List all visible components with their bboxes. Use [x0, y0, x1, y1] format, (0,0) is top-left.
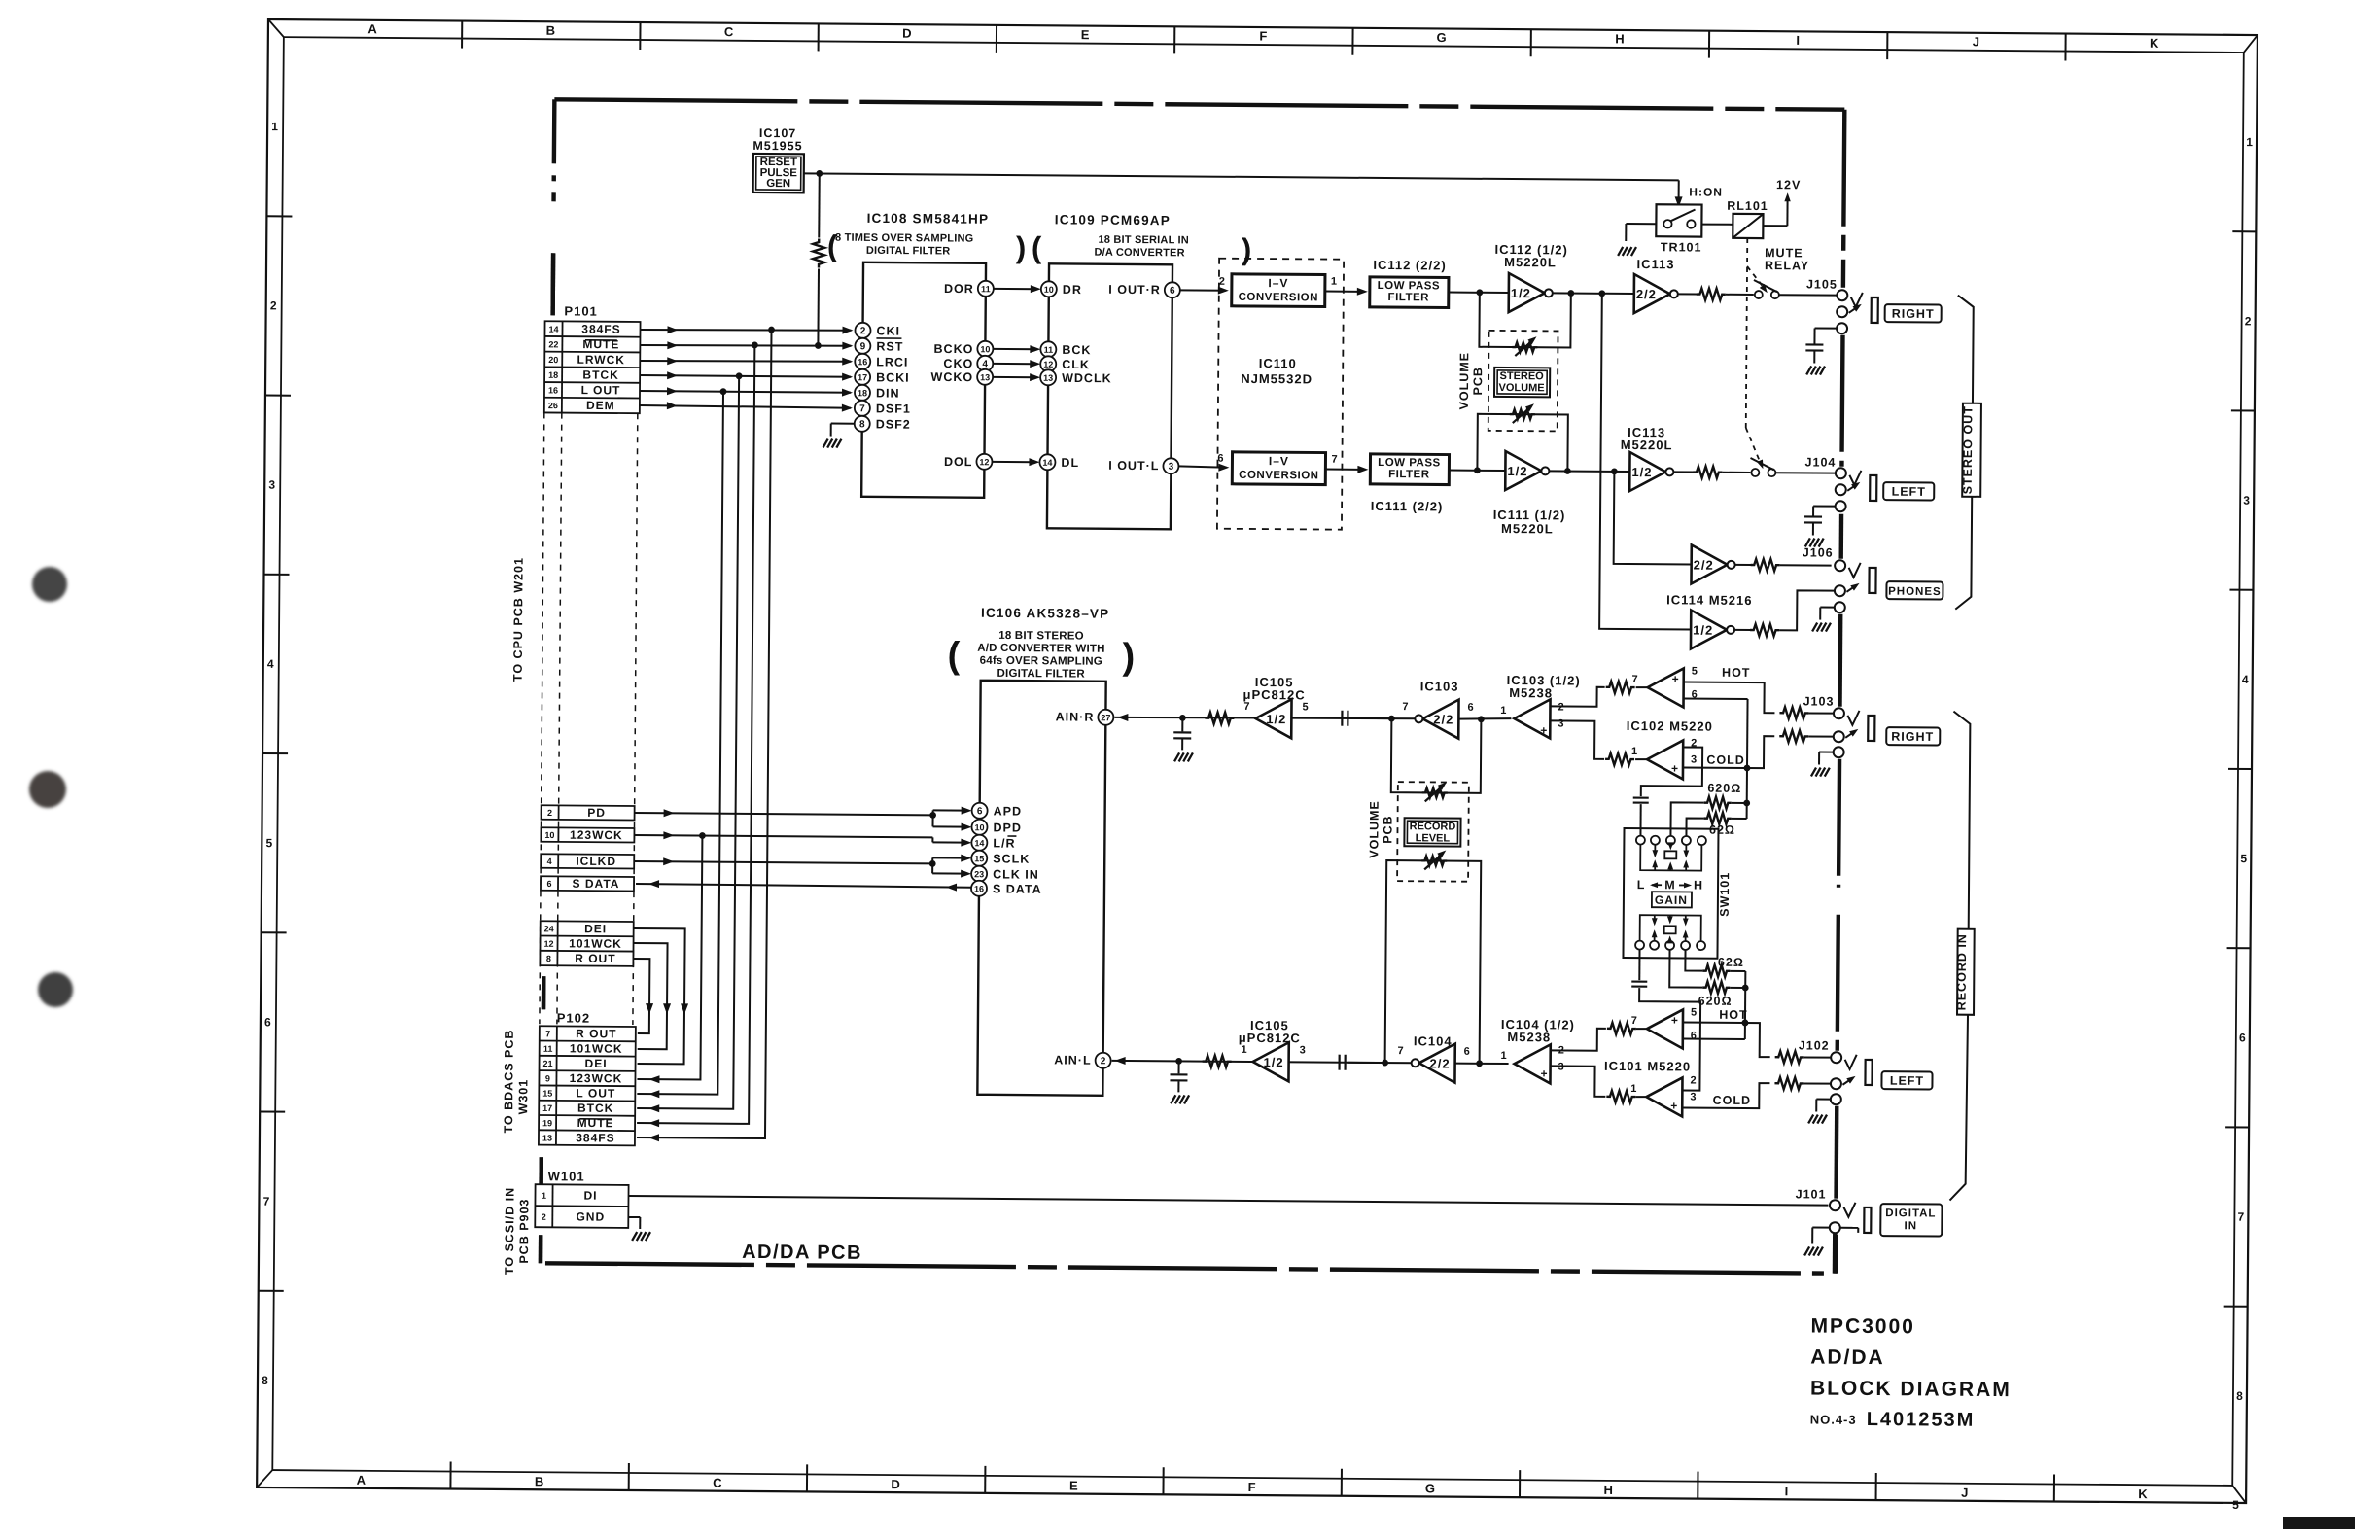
svg-text:RIGHT: RIGHT	[1891, 730, 1934, 744]
sheet number 5	[2232, 1498, 2240, 1512]
capacitor at J104 sleeve	[1804, 506, 1835, 535]
transistor TR101 switch box	[1626, 204, 1702, 255]
wire LPF to IC111	[1449, 467, 1505, 473]
svg-text:H: H	[1615, 31, 1626, 46]
wire GND to ground	[628, 1217, 650, 1241]
filter low pass filter right	[1370, 277, 1449, 308]
svg-text:IC112 (2/2): IC112 (2/2)	[1373, 258, 1446, 273]
svg-text:6: 6	[1464, 1046, 1471, 1058]
wire IC114 2/2 out	[1735, 564, 1752, 566]
svg-text:12: 12	[1043, 360, 1053, 369]
wire TR101 to RL101	[1701, 224, 1732, 226]
svg-text:620Ω: 620Ω	[1707, 782, 1741, 795]
wire to phones ring	[1779, 590, 1834, 630]
wire 620 lower to junction	[1730, 987, 1745, 989]
wire IC103 to M5238	[1458, 718, 1511, 719]
svg-text:H: H	[1694, 879, 1703, 892]
svg-text:RL101: RL101	[1727, 199, 1768, 213]
relay RL101 coil	[1727, 199, 1768, 238]
svg-text:5: 5	[2240, 852, 2248, 865]
svg-text:11: 11	[543, 1044, 553, 1054]
op-amp U IC103 half 2/2	[1402, 699, 1475, 739]
label IC106 AK5328-VP	[981, 606, 1109, 621]
svg-text:IC110: IC110	[1259, 356, 1297, 370]
svg-text:DIGITAL FILTER: DIGITAL FILTER	[866, 245, 951, 258]
record level feedback resistor right	[1391, 716, 1485, 802]
label VOLUME PCB	[1457, 352, 1485, 410]
svg-text:E: E	[1081, 27, 1091, 42]
svg-text:17: 17	[542, 1103, 552, 1113]
resistor J102 tip	[1775, 1051, 1804, 1063]
svg-text:DEI: DEI	[585, 1057, 608, 1070]
wire IC111 to IC113 lower	[1549, 468, 1629, 474]
connector J103 jack	[1834, 708, 1875, 757]
svg-text:CKI: CKI	[876, 324, 900, 337]
svg-text:7: 7	[2237, 1210, 2245, 1224]
label J105	[1806, 277, 1837, 291]
power 12V	[1776, 178, 1801, 201]
wire 123WCK to L/R	[634, 831, 971, 847]
svg-text:): )	[1016, 230, 1027, 264]
ground at J101	[1804, 1227, 1829, 1255]
svg-text:AIN·R: AIN·R	[1056, 710, 1095, 723]
svg-text:R OUT: R OUT	[575, 952, 615, 965]
svg-text:AD/DA: AD/DA	[1810, 1347, 1885, 1370]
svg-text:F: F	[1248, 1480, 1257, 1494]
svg-text:101WCK: 101WCK	[570, 1041, 623, 1055]
label J106	[1802, 545, 1834, 559]
svg-text:2: 2	[270, 298, 278, 312]
svg-text:7: 7	[263, 1195, 271, 1208]
wire COLD to J103 ring	[1683, 735, 1774, 768]
svg-text:BCKI: BCKI	[876, 370, 910, 384]
svg-text:384FS: 384FS	[576, 1131, 614, 1144]
label TO BDACS PCB W301	[502, 1029, 531, 1133]
label MUTE RELAY	[1765, 246, 1809, 272]
wire ICLKD to SCLK CLK IN	[634, 852, 971, 878]
svg-text:18 BIT SERIAL IN: 18 BIT SERIAL IN	[1098, 234, 1189, 247]
svg-text:+: +	[1672, 672, 1680, 685]
op-amp U IC105 lower half	[1241, 1042, 1307, 1082]
svg-text:WCKO: WCKO	[930, 370, 973, 384]
wire SW101 lower pin1 to cap	[1638, 950, 1640, 980]
svg-text:62Ω: 62Ω	[1709, 823, 1735, 837]
wire to IC102 apex	[1636, 686, 1648, 688]
svg-text:6: 6	[264, 1015, 272, 1029]
label IC113	[1637, 257, 1675, 271]
resistor phones R	[1751, 559, 1780, 571]
label J101	[1796, 1187, 1827, 1201]
svg-text:8: 8	[262, 1374, 269, 1387]
wire to IC101 apex	[1636, 1028, 1646, 1030]
wire IC101 pin6	[1683, 1037, 1745, 1040]
svg-text:P102: P102	[557, 1010, 590, 1025]
capacitor gain upper	[1633, 798, 1649, 803]
dashed mute-relay control lines	[1745, 238, 1767, 469]
svg-text:J106: J106	[1802, 545, 1834, 559]
IC109 left pins DR BCK CLK WDCLK DL	[1039, 281, 1112, 471]
svg-text:C: C	[724, 24, 735, 39]
wire to J102 tip circle	[1804, 1056, 1831, 1058]
svg-text:I OUT·L: I OUT·L	[1108, 459, 1159, 472]
bracket RECORD IN	[1950, 712, 1977, 1201]
label IC113 M5220L lower	[1621, 425, 1673, 452]
svg-text:DIGITAL: DIGITAL	[1885, 1207, 1936, 1219]
label IC106 description	[947, 630, 1135, 682]
bracket STEREO OUT	[1955, 296, 1982, 610]
label IC102 M5220	[1627, 718, 1713, 734]
AD/DA PCB boundary (dash-dot outline)	[541, 99, 1844, 1273]
wire 620 to junction	[1732, 802, 1747, 804]
label DIGITAL IN	[1880, 1204, 1942, 1236]
node IC110 dashed box	[1217, 259, 1344, 530]
svg-text:1: 1	[271, 120, 279, 133]
svg-text:17: 17	[857, 372, 867, 382]
resistor output L	[1693, 467, 1722, 478]
IC108 left pins CKI RST LRCI BCKI DIN DSF1 DSF2	[855, 323, 912, 432]
vertical bus wires 384FS MUTE BTCK L OUT 123WCK to P102	[637, 329, 772, 1142]
wire left channel to IC114	[1614, 472, 1693, 565]
op-amp U IC102 lower half	[1631, 737, 1698, 780]
svg-text:5: 5	[1692, 666, 1698, 678]
block IC110a I-V conversion	[1232, 274, 1325, 307]
svg-text:20: 20	[548, 355, 558, 365]
wire M5238 pin3 to COLD	[1550, 720, 1604, 758]
svg-text:2: 2	[860, 326, 866, 336]
svg-text:A: A	[367, 21, 378, 36]
svg-text:RIGHT: RIGHT	[1892, 307, 1935, 321]
wire J101 to boundary	[1833, 1234, 1837, 1274]
svg-text:6: 6	[546, 879, 551, 889]
svg-text:5: 5	[2232, 1498, 2240, 1512]
svg-text:18: 18	[548, 370, 558, 380]
resistor IC102 feedback lower	[1605, 753, 1634, 765]
svg-text:LEFT: LEFT	[1890, 1074, 1924, 1088]
wire to IC102 lower apex	[1635, 758, 1647, 760]
wire cap to IC103	[1349, 715, 1394, 721]
label COLD lower	[1713, 1094, 1752, 1107]
resistor 62 ohm upper	[1703, 813, 1735, 837]
svg-text:123WCK: 123WCK	[570, 828, 623, 842]
wire to J105	[1779, 294, 1837, 296]
label VOLUME PCB lower	[1367, 800, 1394, 858]
svg-text:W101: W101	[548, 1169, 585, 1183]
svg-text:IC114 M5216: IC114 M5216	[1666, 592, 1752, 608]
svg-text:123WCK: 123WCK	[570, 1071, 623, 1085]
svg-text:6: 6	[1217, 453, 1224, 465]
wire M5238 pin2 upper link	[1551, 1028, 1606, 1050]
svg-text:4: 4	[2242, 673, 2250, 686]
svg-text:13: 13	[980, 372, 990, 382]
svg-text:RECORD: RECORD	[1410, 821, 1456, 832]
svg-text:): )	[1242, 232, 1252, 266]
record level feedback resistor left	[1385, 850, 1485, 1067]
svg-text:H:ON: H:ON	[1689, 185, 1723, 198]
svg-text:L OUT: L OUT	[576, 1086, 615, 1100]
resistor 62 ohm lower	[1702, 956, 1744, 977]
svg-text:24: 24	[544, 924, 554, 933]
wire SW101 pin4 up	[1686, 818, 1703, 835]
svg-text:IC103: IC103	[1420, 679, 1459, 693]
op-amp U IC104 1/2 M5238	[1500, 1044, 1565, 1084]
resistor AIN L series	[1203, 1056, 1232, 1067]
svg-text:13: 13	[542, 1134, 552, 1143]
svg-text:VOLUME: VOLUME	[1457, 352, 1471, 410]
wire IC104 to M5238 lower	[1455, 1063, 1509, 1065]
svg-text:6: 6	[977, 806, 983, 817]
label IC103	[1420, 679, 1459, 693]
label LEFT output	[1883, 482, 1934, 500]
svg-text:3: 3	[2243, 494, 2251, 507]
svg-text:TO CPU PCB W201: TO CPU PCB W201	[511, 557, 526, 682]
punch hole top	[32, 567, 67, 602]
svg-text:HOT: HOT	[1719, 1008, 1747, 1022]
wire junction to IC101 pins	[1741, 971, 1748, 1039]
svg-text:M5220L: M5220L	[1504, 255, 1557, 269]
label RECORD LEVEL	[1404, 818, 1460, 846]
svg-text:1/2: 1/2	[1263, 1055, 1283, 1069]
svg-text:1: 1	[1630, 1083, 1637, 1095]
svg-text:GEN: GEN	[766, 178, 790, 190]
svg-text:3: 3	[1690, 1092, 1697, 1103]
wire 62 to junction	[1732, 804, 1747, 819]
svg-text:G: G	[1425, 1481, 1436, 1495]
op-amp U IC101 lower half	[1630, 1074, 1697, 1117]
svg-text:BCK: BCK	[1062, 343, 1091, 357]
svg-text:M5238: M5238	[1509, 685, 1553, 700]
svg-text:1: 1	[1242, 1044, 1248, 1056]
svg-text:1: 1	[2246, 135, 2254, 149]
svg-text:A: A	[357, 1473, 367, 1487]
svg-text:μPC812C: μPC812C	[1242, 687, 1305, 703]
svg-text:1: 1	[1331, 276, 1338, 288]
svg-text:SW101: SW101	[1718, 872, 1732, 917]
PCB boundary bar above P101	[550, 253, 555, 315]
svg-text:2: 2	[547, 808, 552, 818]
label RIGHT input	[1886, 727, 1940, 745]
wires IC108 to IC109 data clock lines	[992, 285, 1040, 466]
svg-text:5: 5	[265, 836, 273, 850]
svg-text:384FS: 384FS	[581, 322, 620, 335]
svg-text:RELAY: RELAY	[1765, 259, 1809, 272]
svg-text:2/2: 2/2	[1429, 1056, 1450, 1070]
svg-text:12V: 12V	[1776, 178, 1801, 192]
svg-text:21: 21	[543, 1059, 553, 1068]
svg-text:GND: GND	[576, 1210, 605, 1224]
svg-text:DIN: DIN	[876, 386, 900, 400]
svg-text:K: K	[2138, 1487, 2149, 1501]
resistor 620 ohm upper	[1704, 782, 1742, 809]
label HOT lower	[1719, 1008, 1747, 1022]
label IC111(1/2) M5220L	[1493, 507, 1566, 537]
svg-text:M5220L: M5220L	[1501, 521, 1554, 536]
svg-text:3: 3	[1300, 1044, 1307, 1056]
resistor J102 ring	[1774, 1077, 1803, 1089]
label IC103 (1/2) M5238	[1507, 673, 1581, 701]
svg-text:LRWCK: LRWCK	[577, 353, 625, 367]
wire cap to SW101	[1639, 804, 1641, 835]
svg-text:DOR: DOR	[944, 282, 974, 296]
wire IC102 pin6	[1683, 698, 1751, 806]
connector W101	[535, 1184, 628, 1228]
svg-text:10: 10	[1044, 285, 1054, 295]
svg-text:CONVERSION: CONVERSION	[1239, 470, 1318, 482]
ground at phones	[1812, 607, 1834, 631]
svg-text:STEREO OUT: STEREO OUT	[1961, 405, 1976, 494]
svg-text:LRCI: LRCI	[876, 355, 908, 368]
svg-text:J104: J104	[1805, 455, 1837, 469]
resistor J103 ring	[1779, 730, 1808, 742]
svg-text:1: 1	[1500, 1050, 1507, 1062]
svg-text:RECORD IN: RECORD IN	[1955, 933, 1970, 1010]
svg-text:+: +	[1540, 723, 1548, 737]
svg-text:L401253M: L401253M	[1867, 1409, 1976, 1431]
svg-text:6: 6	[1467, 702, 1474, 714]
svg-text:S DATA: S DATA	[993, 882, 1042, 895]
svg-text:STEREO: STEREO	[1499, 370, 1544, 382]
svg-text:2: 2	[1690, 1075, 1697, 1087]
label LEFT input	[1881, 1071, 1932, 1089]
wire IC113 out	[1678, 293, 1697, 295]
svg-text:2: 2	[1219, 276, 1226, 288]
wire PD to APD DPD	[634, 804, 971, 831]
block IC110b I-V conversion	[1232, 452, 1325, 485]
svg-text:101WCK: 101WCK	[569, 936, 622, 950]
connector J105 jack	[1837, 290, 1878, 333]
filter low pass filter left	[1370, 454, 1449, 485]
svg-text:7: 7	[545, 1029, 550, 1038]
svg-text:VOLUME: VOLUME	[1498, 382, 1544, 394]
svg-text:14: 14	[1042, 458, 1052, 468]
svg-text:R OUT: R OUT	[576, 1027, 616, 1040]
svg-text:9: 9	[860, 341, 866, 352]
svg-text:I–V: I–V	[1269, 454, 1289, 468]
svg-text:3: 3	[1691, 754, 1697, 766]
svg-text:M5238: M5238	[1507, 1030, 1551, 1044]
label W101	[548, 1169, 585, 1183]
svg-text:27: 27	[1101, 713, 1110, 722]
label IC101 M5220	[1604, 1059, 1691, 1074]
svg-text:16: 16	[548, 385, 558, 395]
svg-text:C: C	[713, 1476, 723, 1490]
punch hole bottom	[38, 972, 73, 1007]
svg-text:1/2: 1/2	[1266, 712, 1286, 726]
svg-text:L/R: L/R	[993, 836, 1015, 850]
resistor J103 tip	[1779, 707, 1808, 718]
op-amp U IC103 1/2 M5238	[1500, 699, 1565, 739]
svg-text:FILTER: FILTER	[1388, 469, 1430, 480]
resistor phones L	[1750, 624, 1779, 636]
svg-text:PCB: PCB	[1471, 367, 1485, 396]
label H:ON	[1689, 185, 1723, 198]
svg-text:3: 3	[1557, 717, 1564, 729]
op-amp U IC114 half 2/2	[1691, 545, 1734, 584]
svg-text:A/D CONVERTER WITH: A/D CONVERTER WITH	[977, 643, 1104, 655]
label IC105 upper	[1242, 675, 1305, 703]
svg-text:23: 23	[974, 869, 984, 879]
wire RL101 to 12V	[1763, 197, 1787, 226]
svg-text:3: 3	[1169, 462, 1174, 472]
wire COLD to J102 ring	[1682, 1082, 1769, 1108]
svg-text:DL: DL	[1061, 456, 1079, 470]
wire M5238 pin2 to feedback resistor	[1550, 686, 1604, 706]
svg-text:J: J	[1973, 34, 1980, 49]
svg-text:64fs OVER SAMPLING: 64fs OVER SAMPLING	[980, 655, 1102, 668]
svg-text:2: 2	[1101, 1056, 1106, 1067]
svg-text:3: 3	[268, 478, 276, 492]
volume feedback resistor left channel	[1477, 403, 1571, 474]
svg-text:16: 16	[857, 357, 867, 367]
svg-text:7: 7	[859, 403, 865, 414]
op-amp U IC101 upper half	[1631, 1006, 1698, 1049]
svg-text:18: 18	[857, 388, 867, 398]
svg-text:2/2: 2/2	[1433, 712, 1453, 726]
label IC112(2/2)	[1373, 258, 1446, 273]
capacitor series left rec	[1340, 1055, 1346, 1070]
svg-text:CLK: CLK	[1062, 358, 1090, 371]
label IC109 PCM69AP	[1055, 212, 1171, 227]
svg-text:J: J	[1961, 1486, 1969, 1500]
svg-text:CKO: CKO	[943, 357, 973, 370]
wire to J103 tip circle	[1808, 712, 1833, 714]
label IC111(2/2)	[1371, 499, 1444, 514]
IC IC109 PCM69AP D/A converter box	[1047, 263, 1172, 529]
svg-text:NJM5532D: NJM5532D	[1241, 371, 1312, 387]
svg-text:10: 10	[544, 830, 554, 840]
svg-text:AD/DA PCB: AD/DA PCB	[742, 1242, 862, 1264]
svg-text:11: 11	[1044, 345, 1054, 355]
label P102	[557, 1010, 590, 1025]
wire I OUT L to I-V conversion	[1178, 452, 1229, 471]
svg-text:B: B	[546, 23, 557, 38]
svg-text:DPD: DPD	[993, 821, 1022, 834]
label TO SCSI/D IN PCB P903	[503, 1187, 532, 1275]
svg-text:11: 11	[981, 284, 991, 294]
wire SW101 pin3 up	[1670, 802, 1703, 835]
label HOT upper	[1722, 666, 1750, 680]
connector J101 jack	[1830, 1200, 1872, 1233]
op-amp U IC111 half	[1505, 451, 1549, 490]
svg-text:DIGITAL FILTER: DIGITAL FILTER	[997, 668, 1086, 681]
PCB boundary bar between connectors	[542, 976, 546, 1009]
label IC109 description	[1032, 230, 1252, 266]
svg-text:PCB: PCB	[1381, 815, 1394, 844]
svg-text:PHONES: PHONES	[1888, 586, 1942, 598]
label IC112(1/2) M5220L	[1494, 242, 1568, 270]
svg-text:LOW PASS: LOW PASS	[1378, 280, 1441, 293]
svg-text:IC108 SM5841HP: IC108 SM5841HP	[867, 211, 990, 227]
svg-text:K: K	[2150, 36, 2160, 51]
svg-text:22: 22	[548, 339, 558, 349]
svg-text:DOL: DOL	[944, 455, 972, 469]
svg-text:7: 7	[1398, 1045, 1405, 1057]
svg-text:IC102 M5220: IC102 M5220	[1627, 718, 1713, 734]
svg-text:1/2: 1/2	[1631, 465, 1652, 479]
svg-text:2/2: 2/2	[1694, 558, 1714, 573]
svg-text:TO SCSI/D IN: TO SCSI/D IN	[503, 1187, 517, 1275]
wire HOT to J102 tip	[1683, 1019, 1770, 1057]
resistor IC101 feedback upper	[1607, 1023, 1636, 1034]
svg-text:IC101 M5220: IC101 M5220	[1604, 1059, 1691, 1074]
svg-text:12: 12	[979, 457, 989, 467]
IC IC108 SM5841HP digital filter box	[861, 262, 986, 498]
svg-text:J105: J105	[1806, 277, 1837, 291]
svg-text:1: 1	[1500, 705, 1507, 717]
wire to J102 ring circle	[1803, 1082, 1830, 1084]
svg-text:ICLKD: ICLKD	[576, 855, 616, 868]
svg-text:1/2: 1/2	[1507, 464, 1527, 478]
wire M5238 pin3 lower link	[1550, 1066, 1605, 1096]
